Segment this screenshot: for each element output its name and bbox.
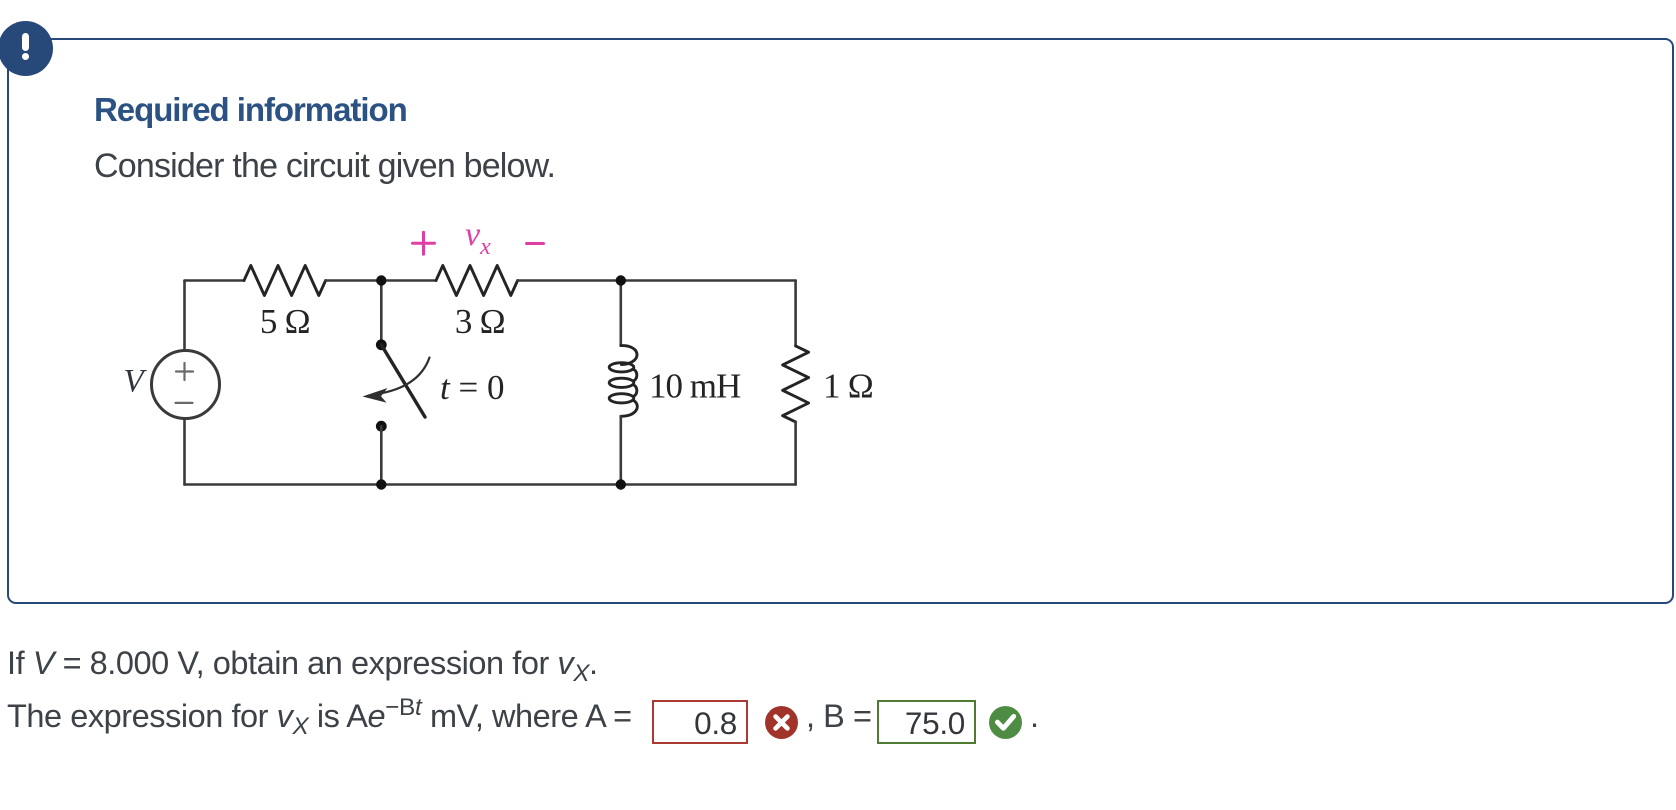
wire switch stem upper bbox=[380, 281, 383, 345]
switch contact lower dot bbox=[376, 421, 387, 432]
circuit schematic bbox=[100, 210, 900, 510]
answer box B (correct) bbox=[877, 700, 976, 744]
wire between R1 and R2 bbox=[326, 279, 436, 282]
svg-text:V: V bbox=[124, 364, 148, 400]
source plus sign bbox=[176, 363, 193, 380]
wire left rail lower bbox=[183, 419, 186, 485]
question line 1 bbox=[7, 645, 598, 682]
polarity minus vx magenta bbox=[527, 242, 544, 245]
inductor right bump 1 bbox=[634, 369, 637, 381]
node inductor bottom bbox=[616, 479, 626, 489]
inductor loop ellipse 1 bbox=[609, 363, 634, 372]
wire inductor stem lower bbox=[619, 416, 622, 484]
resistor R2 3ohm zigzag bbox=[436, 266, 518, 296]
node inductor top bbox=[616, 275, 626, 285]
text between bbox=[806, 698, 872, 735]
incorrect X mark bbox=[765, 706, 798, 739]
inductor loop ellipse 3 bbox=[609, 394, 634, 403]
trailing period bbox=[1030, 698, 1039, 735]
resistor R3 1ohm zigzag bbox=[783, 346, 809, 422]
svg-text:5 Ω: 5 Ω bbox=[260, 302, 310, 341]
inductor L1 bottom hook bbox=[621, 400, 637, 416]
svg-text:3 Ω: 3 Ω bbox=[455, 302, 505, 341]
alert circle with exclamation bbox=[0, 21, 53, 76]
node junction top bbox=[376, 275, 386, 285]
wire left rail upper bbox=[183, 281, 186, 351]
svg-text:1 Ω: 1 Ω bbox=[823, 367, 873, 406]
node junction bottom left bbox=[376, 479, 386, 489]
switch motion arc bbox=[380, 358, 430, 394]
intro paragraph bbox=[94, 147, 555, 186]
answer box A (incorrect) bbox=[652, 700, 748, 744]
switch blade bbox=[381, 345, 425, 417]
wire right rail upper bbox=[794, 281, 797, 346]
voltage source V circle bbox=[152, 351, 220, 419]
svg-text:vx: vx bbox=[465, 216, 491, 260]
switch contact upper dot bbox=[376, 339, 387, 350]
wire switch stem lower bbox=[380, 426, 383, 484]
polarity plus vx magenta bbox=[413, 232, 435, 254]
question line 2 bbox=[7, 698, 632, 735]
heading bbox=[94, 91, 407, 129]
callout box border bbox=[7, 38, 1674, 604]
wire top rail right segment bbox=[518, 279, 796, 282]
inductor L1 top hook bbox=[621, 346, 637, 365]
wire top rail left segment bbox=[185, 279, 245, 282]
wire inductor stem upper bbox=[619, 281, 622, 346]
inductor loop ellipse 2 bbox=[609, 378, 634, 387]
inductor right bump 2 bbox=[634, 385, 637, 397]
wire bottom rail bbox=[185, 483, 796, 486]
svg-text:t = 0: t = 0 bbox=[440, 368, 504, 407]
wire right rail lower bbox=[794, 422, 797, 485]
switch arrowhead bbox=[363, 388, 388, 403]
resistor R1 5ohm zigzag bbox=[244, 266, 326, 296]
svg-text:10 mH: 10 mH bbox=[649, 367, 741, 406]
correct check mark bbox=[989, 706, 1022, 739]
source minus sign bbox=[176, 402, 193, 404]
